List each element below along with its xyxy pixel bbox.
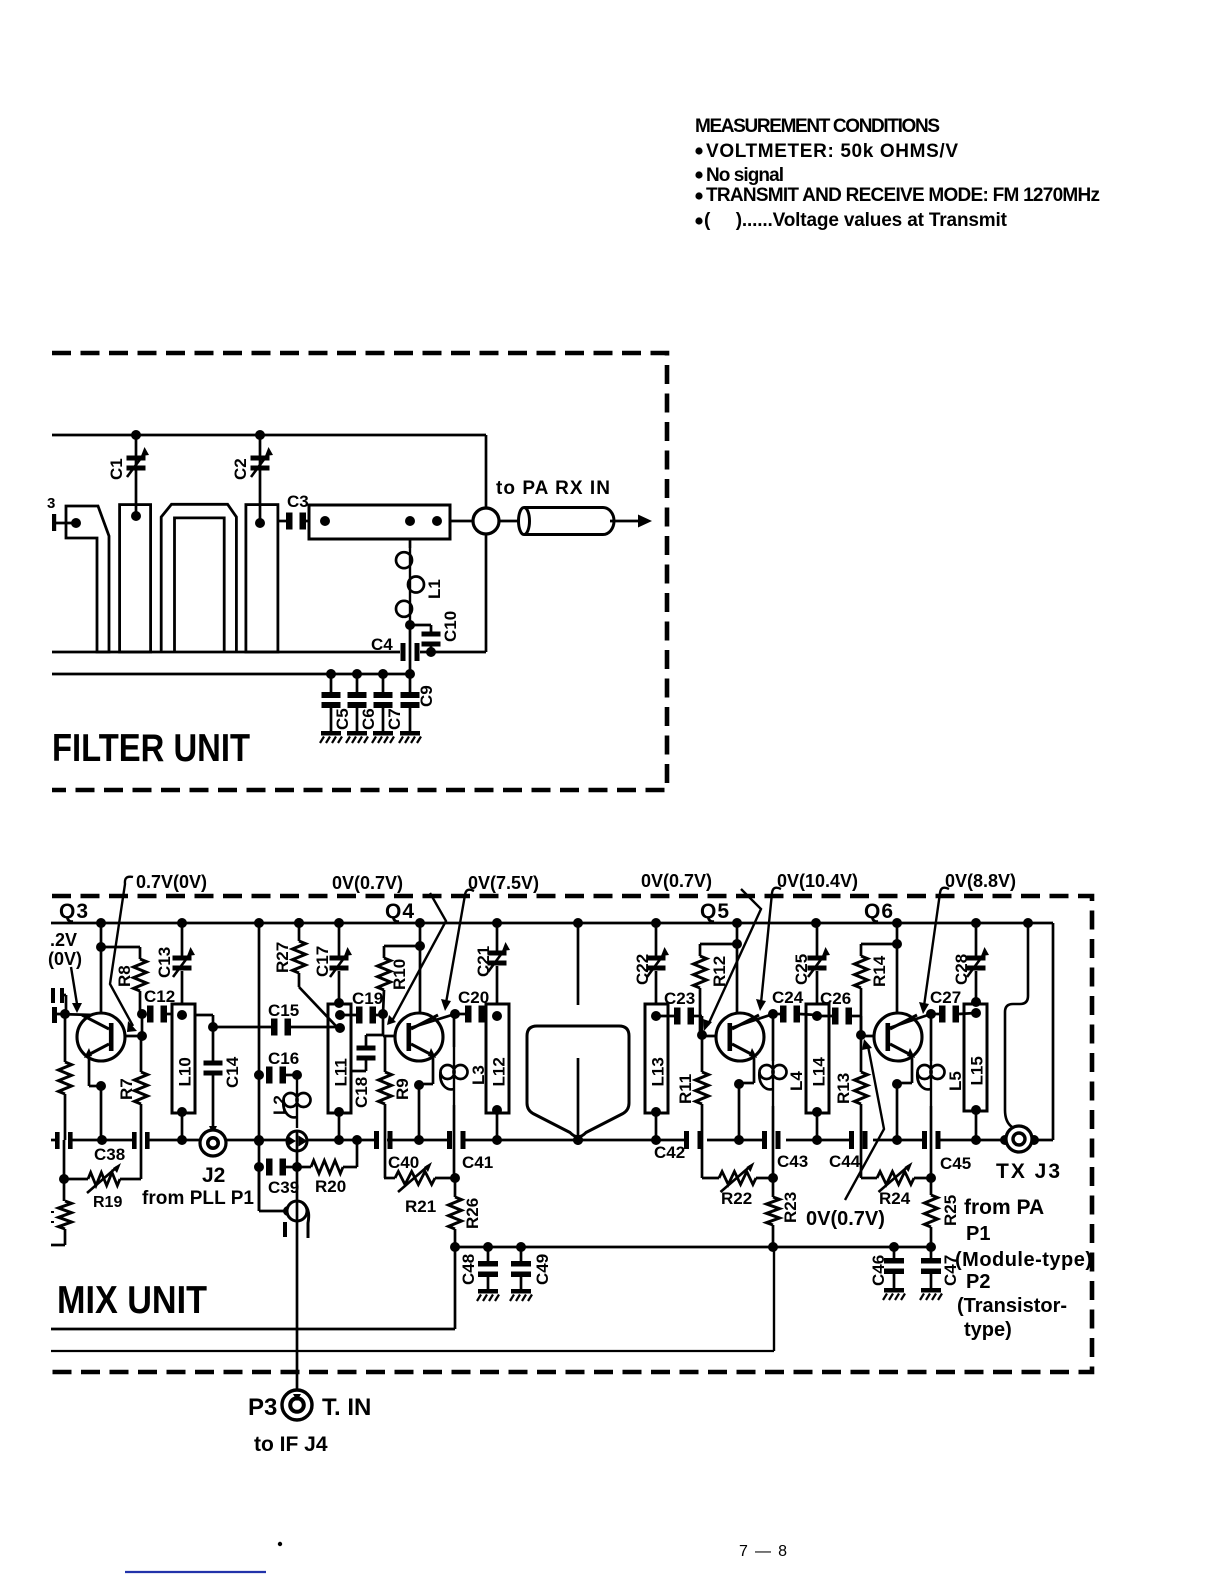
svg-text:0V(0.7V): 0V(0.7V) xyxy=(641,871,712,891)
svg-text:No signal: No signal xyxy=(706,165,784,186)
svg-text:Q3: Q3 xyxy=(59,900,89,923)
svg-text:C23: C23 xyxy=(664,989,695,1008)
svg-text:C5: C5 xyxy=(333,708,352,730)
svg-text:L4: L4 xyxy=(787,1071,806,1091)
svg-text:to IF J4: to IF J4 xyxy=(254,1433,328,1456)
svg-text:C28: C28 xyxy=(952,954,971,985)
svg-text:R22: R22 xyxy=(721,1189,752,1208)
svg-text:R13: R13 xyxy=(834,1073,853,1104)
svg-text:L10: L10 xyxy=(176,1057,195,1086)
svg-text:7 — 8: 7 — 8 xyxy=(739,1543,787,1560)
svg-text:C26: C26 xyxy=(820,989,851,1008)
svg-text:C46: C46 xyxy=(869,1255,888,1286)
svg-text:R23: R23 xyxy=(781,1192,800,1223)
svg-text:( )......Voltage values at: ( )......Voltage values at Transmit xyxy=(704,210,1008,231)
svg-text:to PA RX IN: to PA RX IN xyxy=(496,478,610,499)
svg-text:MEASUREMENT CONDITIONS: MEASUREMENT CONDITIONS xyxy=(695,116,940,137)
svg-text:L12: L12 xyxy=(490,1057,509,1086)
svg-text:C15: C15 xyxy=(268,1001,299,1020)
svg-text:R26: R26 xyxy=(463,1198,482,1229)
svg-text:C7: C7 xyxy=(385,708,404,730)
svg-text:C14: C14 xyxy=(223,1056,242,1088)
svg-text:from PLL P1: from PLL P1 xyxy=(142,1188,254,1209)
svg-text:C19: C19 xyxy=(352,989,383,1008)
svg-text:C1: C1 xyxy=(107,458,126,480)
svg-text:C25: C25 xyxy=(792,954,811,985)
svg-text:R20: R20 xyxy=(315,1177,346,1196)
svg-text:R9: R9 xyxy=(393,1078,412,1100)
svg-text:0.7V(0V): 0.7V(0V) xyxy=(136,872,207,892)
svg-text:type): type) xyxy=(964,1319,1012,1341)
svg-text:C21: C21 xyxy=(474,946,493,977)
svg-text:C17: C17 xyxy=(313,946,332,977)
svg-text:L11: L11 xyxy=(332,1058,351,1086)
svg-text:C40: C40 xyxy=(388,1153,419,1172)
svg-text:R12: R12 xyxy=(710,956,729,987)
svg-text:R19: R19 xyxy=(93,1194,122,1211)
svg-text:L5: L5 xyxy=(946,1071,965,1091)
svg-text:L3: L3 xyxy=(469,1065,488,1085)
svg-text:.2V: .2V xyxy=(50,930,77,950)
svg-text:C6: C6 xyxy=(359,708,378,730)
svg-text:from PA: from PA xyxy=(964,1196,1044,1219)
svg-text:R21: R21 xyxy=(405,1197,436,1216)
svg-text:R7: R7 xyxy=(117,1078,136,1100)
svg-text:C2: C2 xyxy=(231,458,250,480)
svg-text:3: 3 xyxy=(47,495,55,512)
svg-text:L15: L15 xyxy=(968,1056,987,1085)
svg-text:C10: C10 xyxy=(441,611,460,642)
svg-text:0V(7.5V): 0V(7.5V) xyxy=(468,873,539,893)
svg-text:FILTER UNIT: FILTER UNIT xyxy=(52,727,250,770)
svg-text:L1: L1 xyxy=(425,579,444,599)
svg-text:C3: C3 xyxy=(287,492,309,511)
svg-text:L13: L13 xyxy=(649,1057,668,1086)
svg-text:(Transistor-: (Transistor- xyxy=(957,1295,1067,1317)
svg-text:R8: R8 xyxy=(115,965,134,987)
svg-text:0V(0.7V): 0V(0.7V) xyxy=(806,1208,885,1230)
svg-text:C42: C42 xyxy=(654,1143,685,1162)
svg-text:VOLTMETER: 50k OHMS/V: VOLTMETER: 50k OHMS/V xyxy=(706,141,958,162)
svg-text:0V(8.8V): 0V(8.8V) xyxy=(945,871,1016,891)
svg-text:R27: R27 xyxy=(273,942,292,973)
svg-text:C44: C44 xyxy=(829,1152,861,1171)
svg-text:TX J3: TX J3 xyxy=(996,1160,1062,1183)
svg-text:T. IN: T. IN xyxy=(322,1394,371,1421)
svg-text:C13: C13 xyxy=(155,947,174,978)
svg-text:J2: J2 xyxy=(202,1164,225,1187)
svg-text:R24: R24 xyxy=(879,1189,911,1208)
svg-text:C38: C38 xyxy=(94,1145,125,1164)
svg-text:Q5: Q5 xyxy=(700,900,730,923)
svg-text:C22: C22 xyxy=(633,954,652,985)
svg-text:C45: C45 xyxy=(940,1154,971,1173)
svg-text:Q4: Q4 xyxy=(385,900,415,923)
svg-text:R25: R25 xyxy=(941,1195,960,1226)
svg-text:C9: C9 xyxy=(417,685,436,707)
svg-text:(0V): (0V) xyxy=(48,949,82,969)
svg-text:(Module-type): (Module-type) xyxy=(955,1249,1092,1271)
svg-text:R10: R10 xyxy=(390,959,409,990)
svg-text:C43: C43 xyxy=(777,1152,808,1171)
svg-text:P3: P3 xyxy=(248,1394,277,1421)
svg-text:0V(10.4V): 0V(10.4V) xyxy=(777,871,858,891)
svg-text:P1: P1 xyxy=(966,1223,990,1245)
svg-text:TRANSMIT AND RECEIVE MODE: FM: TRANSMIT AND RECEIVE MODE: FM 1270MHz xyxy=(706,185,1100,206)
svg-text:MIX UNIT: MIX UNIT xyxy=(57,1279,207,1322)
svg-text:0V(0.7V): 0V(0.7V) xyxy=(332,873,403,893)
svg-text:C39: C39 xyxy=(268,1178,299,1197)
svg-text:C24: C24 xyxy=(772,988,804,1007)
svg-text:C48: C48 xyxy=(459,1254,478,1285)
svg-text:L14: L14 xyxy=(810,1057,829,1087)
svg-text:C18: C18 xyxy=(352,1077,371,1108)
svg-text:R14: R14 xyxy=(870,955,889,987)
svg-text:C41: C41 xyxy=(462,1153,493,1172)
svg-text:P2: P2 xyxy=(966,1271,990,1293)
svg-text:C49: C49 xyxy=(533,1254,552,1285)
svg-text:C27: C27 xyxy=(930,988,961,1007)
svg-text:C16: C16 xyxy=(268,1049,299,1068)
svg-text:Q6: Q6 xyxy=(864,900,894,923)
svg-text:R11: R11 xyxy=(676,1074,695,1104)
